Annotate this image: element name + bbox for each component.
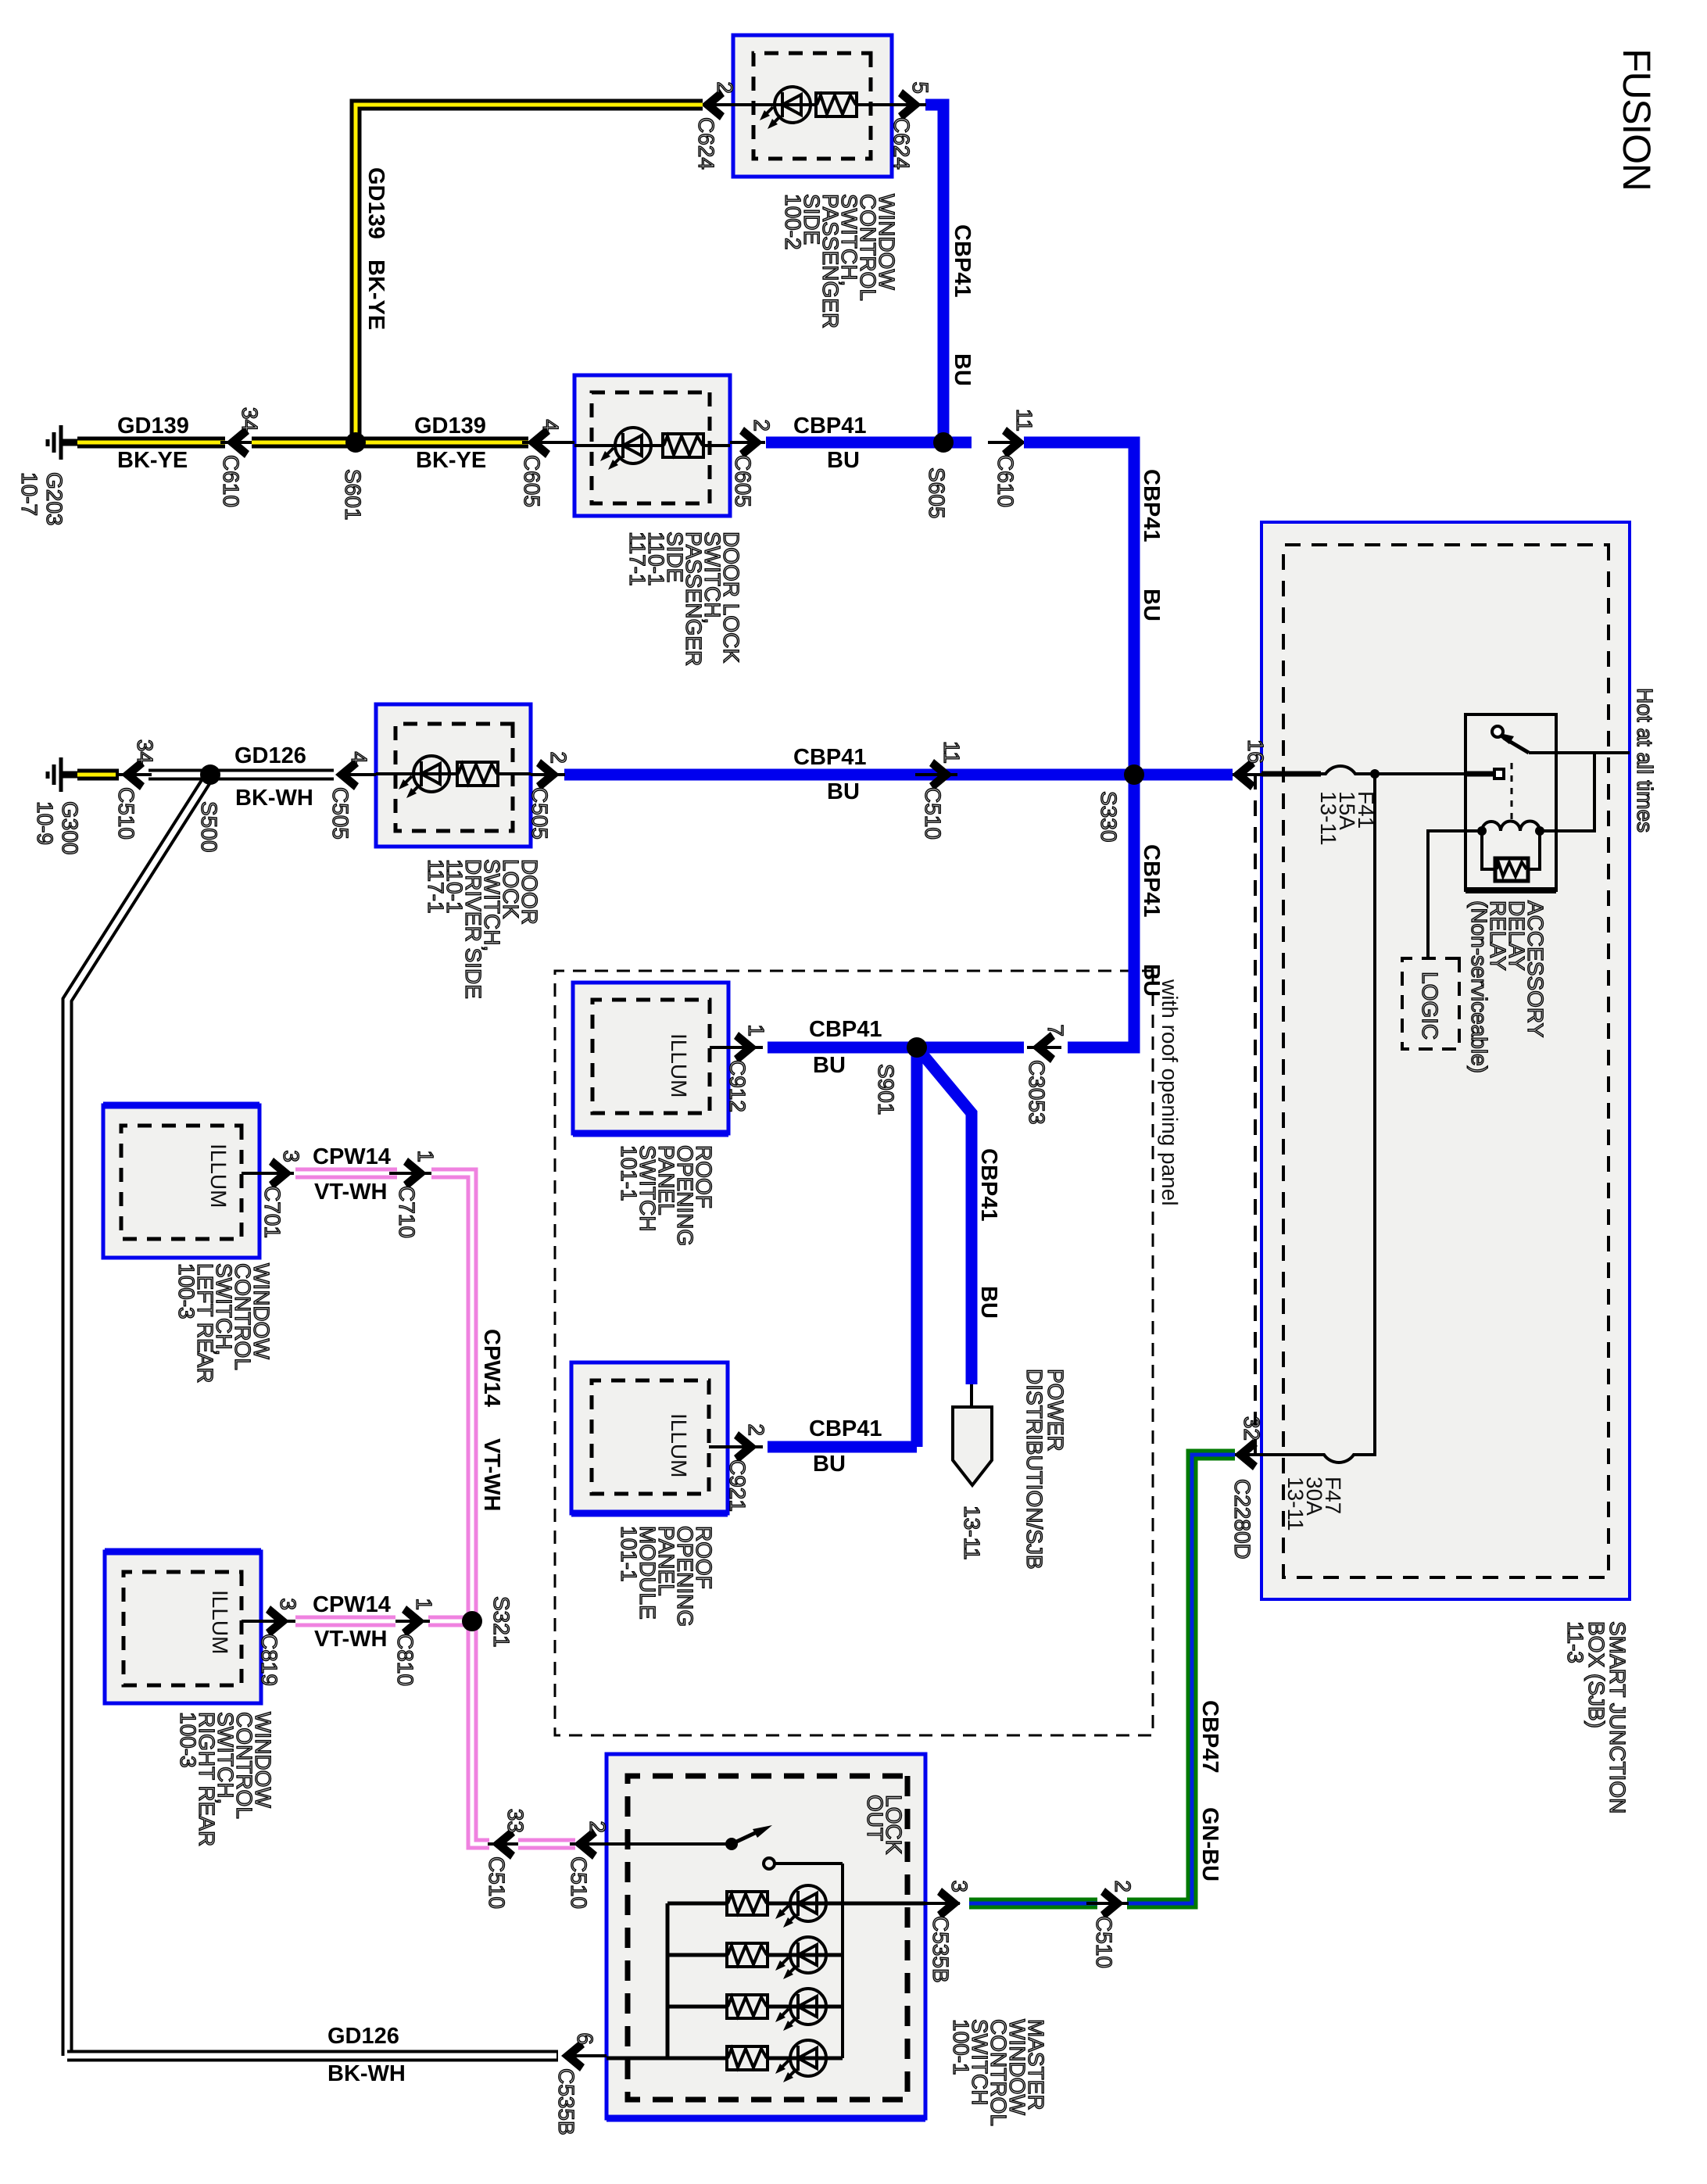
svg-text:10-7: 10-7	[17, 472, 41, 516]
svg-text:C701: C701	[260, 1186, 284, 1238]
junction S330 dot	[1124, 764, 1144, 785]
stub roof module illum pin	[709, 1445, 728, 1448]
svg-text:GD139: GD139	[363, 167, 388, 239]
connector C535B pin 6	[564, 2054, 607, 2057]
svg-text:VT-WH: VT-WH	[314, 1180, 387, 1205]
SJB pin 16 arrow	[1227, 773, 1261, 776]
power distribution SJB off-page symbol	[953, 1407, 992, 1485]
logic box	[1402, 958, 1459, 1049]
svg-text:S601: S601	[341, 469, 365, 520]
lamp supply bus	[841, 1864, 844, 2058]
svg-text:C535B: C535B	[929, 1916, 953, 1983]
label CBP41 BU above S330 going to SJB	[398, 198, 399, 199]
wire CBP41 S330 to driver door lock C505	[564, 769, 1134, 781]
svg-text:GN-BU: GN-BU	[1197, 1807, 1222, 1881]
svg-text:(Non-serviceable): (Non-serviceable)	[1467, 900, 1491, 1073]
svg-text:3: 3	[276, 1598, 300, 1610]
master box thick edge	[607, 2115, 925, 2122]
connector C510 pin 33	[492, 1828, 515, 1860]
wire GD139 BK-YE G203 to C610	[77, 437, 225, 449]
wire CBP41 BU passenger window switch to S605	[925, 105, 943, 442]
svg-text:LOGIC: LOGIC	[1418, 972, 1442, 1040]
svg-text:3: 3	[947, 1880, 972, 1892]
svg-text:CBP41: CBP41	[793, 745, 867, 770]
svg-text:CBP41: CBP41	[1139, 844, 1164, 918]
svg-text:C535B: C535B	[554, 2068, 578, 2136]
door lock switch driver side box	[376, 704, 531, 847]
svg-text:34: 34	[133, 739, 157, 764]
wire junction to fuse F47	[1358, 774, 1375, 1455]
wire fuse F41 to relay with junction	[1360, 772, 1465, 775]
connector C610 pin 34	[220, 441, 255, 444]
lockout switch wire	[607, 1842, 732, 1846]
svg-text:BK-WH: BK-WH	[235, 786, 313, 811]
wire BK-YE stub to ground G300	[77, 769, 119, 781]
wire CBP41 C3053 to S901	[917, 1042, 1024, 1054]
svg-text:GD126: GD126	[327, 2024, 399, 2049]
lamp in window control switch passenger	[760, 87, 811, 129]
wire CPW14 VT-WH C701 to C710	[295, 1168, 397, 1180]
relay dotted actuator link	[1511, 763, 1513, 823]
svg-text:ILLUM: ILLUM	[206, 1144, 231, 1208]
svg-text:101-1: 101-1	[617, 1145, 641, 1201]
svg-text:GD126: GD126	[234, 743, 306, 768]
wire coil to logic module	[1428, 831, 1482, 958]
svg-text:BU: BU	[976, 1286, 1001, 1319]
svg-text:100-1: 100-1	[949, 2019, 973, 2075]
window control switch left rear box	[103, 1105, 259, 1258]
wire CPW14 S321 down to right rear	[428, 1616, 472, 1627]
svg-text:C610: C610	[219, 455, 243, 507]
svg-text:C605: C605	[731, 455, 755, 507]
svg-text:C921: C921	[725, 1459, 750, 1512]
label GD126 BK-WH bottom	[327, 2024, 399, 2049]
svg-text:C3053: C3053	[1025, 1060, 1049, 1125]
wire CBP47 GN-BU SJB to master switch	[1127, 1455, 1235, 1903]
svg-text:BU: BU	[950, 353, 975, 386]
fuse F41	[1321, 766, 1360, 774]
relay moving contact arm	[1504, 738, 1529, 753]
svg-text:C510: C510	[114, 787, 138, 840]
wire CBP41 S901 diagonal to power distribution	[917, 1047, 972, 1384]
lamp column 2	[667, 1953, 843, 1957]
svg-text:2: 2	[713, 81, 737, 94]
svg-text:C505: C505	[328, 787, 352, 840]
wire GD126 BK-WH C505 to S500	[210, 769, 334, 781]
junction S321 dot	[462, 1611, 482, 1631]
lamp column 3	[667, 2005, 843, 2009]
svg-text:11: 11	[939, 741, 964, 764]
svg-text:101-1: 101-1	[617, 1526, 641, 1582]
wire CBP41 S901 to module column	[911, 1047, 923, 1447]
svg-text:C510: C510	[567, 1856, 591, 1909]
label CBP41 BU roof module	[809, 1416, 882, 1441]
svg-text:C624: C624	[694, 117, 718, 170]
connector C701 pin 3	[259, 1172, 294, 1175]
svg-text:6: 6	[573, 2032, 597, 2045]
svg-text:13-11: 13-11	[960, 1506, 984, 1560]
svg-text:CBP41: CBP41	[793, 414, 867, 439]
svg-text:100-3: 100-3	[174, 1263, 199, 1319]
svg-text:CBP41: CBP41	[1139, 469, 1164, 542]
connector C610 pin 11	[1002, 427, 1025, 458]
svg-text:2: 2	[546, 751, 571, 764]
relay input stub and terminal	[1465, 772, 1494, 777]
junction S901 dot	[907, 1037, 927, 1058]
connector C510 pin 2 green	[1100, 1888, 1124, 1919]
label CBP41 BU roof switch	[809, 1017, 882, 1042]
wire CBP41 S605 up to corner	[943, 437, 972, 449]
svg-text:C2280D: C2280D	[1230, 1479, 1254, 1559]
roof opening panel module box	[571, 1362, 728, 1513]
label GD126 BK-WH	[234, 743, 306, 768]
wire GD139 BK-YE S601 to C605	[356, 437, 528, 449]
junction S605 dot	[933, 432, 954, 453]
svg-text:C810: C810	[393, 1634, 417, 1686]
connector C810 pin 1	[402, 1606, 425, 1637]
resistor in window control switch passenger	[816, 93, 857, 116]
connector C819 pin 3	[261, 1620, 295, 1623]
lamp in door lock switch driver	[399, 756, 449, 798]
svg-text:FUSION: FUSION	[1615, 48, 1659, 191]
svg-text:BU: BU	[1139, 964, 1164, 997]
svg-text:CBP41: CBP41	[809, 1416, 882, 1441]
svg-text:ILLUM: ILLUM	[667, 1033, 691, 1097]
accessory delay relay box	[1465, 714, 1556, 890]
wire GD139 BK-YE C624 down and to S601	[356, 105, 703, 442]
svg-text:C510: C510	[1092, 1916, 1116, 1968]
svg-text:C819: C819	[257, 1634, 281, 1686]
svg-text:CPW14: CPW14	[313, 1144, 391, 1169]
label CPW14 VT-WH right rear	[313, 1592, 391, 1617]
roof module box thick edge	[571, 1510, 728, 1517]
label CBP41 BU	[793, 414, 867, 439]
svg-text:BU: BU	[827, 779, 860, 804]
svg-text:2: 2	[1111, 1880, 1135, 1892]
svg-text:C710: C710	[395, 1186, 419, 1238]
lamp column 1	[667, 1902, 925, 1906]
svg-text:10-9: 10-9	[33, 801, 57, 845]
connector C912 pin 1	[728, 1046, 763, 1049]
svg-text:117-1: 117-1	[424, 859, 448, 914]
svg-text:5: 5	[908, 81, 932, 94]
relay box thick edge	[1465, 887, 1556, 893]
lamp in door lock switch passenger	[600, 428, 651, 470]
svg-text:2: 2	[744, 1423, 768, 1436]
roof switch box thick edge	[573, 1130, 728, 1137]
svg-text:11: 11	[1012, 409, 1036, 431]
svg-text:VT-WH: VT-WH	[479, 1438, 504, 1511]
left rear box thick edge	[103, 1102, 259, 1109]
label GD139 BK-YE mid	[414, 414, 486, 439]
svg-text:4: 4	[539, 419, 563, 431]
connector C624 pin 2	[699, 103, 733, 106]
roof opening panel dashed region	[555, 971, 1153, 1735]
lockout switch pivot	[725, 1838, 738, 1850]
svg-text:G203: G203	[42, 472, 66, 526]
wire hot branch to coil	[1542, 753, 1594, 831]
window control switch right rear box	[105, 1552, 261, 1703]
connector C3053 pin 7	[1027, 1046, 1061, 1049]
svg-text:BU: BU	[827, 448, 860, 473]
svg-text:1: 1	[744, 1024, 768, 1037]
svg-text:BK-WH: BK-WH	[327, 2061, 406, 2086]
wire CPW14 VT-WH C810 to C819	[295, 1616, 395, 1627]
resistor in door lock switch passenger	[663, 434, 703, 457]
svg-text:S321: S321	[489, 1596, 514, 1647]
SJB inner dashed border	[1283, 545, 1609, 1577]
svg-text:2: 2	[750, 419, 774, 431]
wire CBP41 S901 to C912	[768, 1042, 917, 1054]
svg-text:S330: S330	[1097, 791, 1121, 842]
svg-text:OUT: OUT	[863, 1795, 887, 1841]
stub roof switch illum pin	[710, 1046, 728, 1049]
svg-text:100-2: 100-2	[781, 194, 805, 250]
svg-text:7: 7	[1043, 1024, 1068, 1037]
svg-text:VT-WH: VT-WH	[314, 1627, 387, 1652]
relay coil	[1477, 822, 1544, 836]
svg-text:BK-YE: BK-YE	[363, 260, 388, 330]
svg-text:1: 1	[413, 1150, 438, 1162]
stub to power distribution symbol	[970, 1384, 973, 1407]
wire CPW14 C710 to S321 rail	[431, 1173, 489, 1844]
svg-text:S500: S500	[197, 801, 221, 852]
wire GD126 BK-WH rail up to master switch	[67, 2050, 558, 2062]
resistor in door lock switch driver	[457, 762, 498, 786]
ground G300	[48, 757, 77, 792]
svg-text:BU: BU	[813, 1452, 846, 1477]
svg-text:C605: C605	[520, 455, 544, 507]
svg-text:ILLUM: ILLUM	[208, 1590, 232, 1654]
wire GD139 BK-YE C610 to S601	[252, 437, 356, 449]
svg-text:CPW14: CPW14	[479, 1329, 504, 1407]
svg-text:13-11: 13-11	[1316, 791, 1340, 846]
relay coil suppression resistor	[1482, 831, 1495, 869]
wire GD126 BK-WH S500 diagonal to bottom rail	[67, 775, 210, 2056]
wire CBP41 BU C605 to S605	[766, 437, 943, 449]
master window control switch box	[607, 1754, 925, 2118]
svg-text:GD139: GD139	[414, 414, 486, 439]
connector C510 pin 2 master	[574, 1828, 597, 1860]
SJB label	[1563, 1621, 1630, 1813]
lamp column 4	[607, 2057, 843, 2060]
smart junction box SJB	[1261, 522, 1630, 1599]
connector C624 pin 5	[892, 103, 926, 106]
fuse F47	[1319, 1455, 1358, 1463]
svg-text:ILLUM: ILLUM	[667, 1413, 691, 1477]
lockout fixed contact	[764, 1858, 775, 1869]
wire CBP41 S330 to C3053 corner	[1068, 775, 1134, 1047]
svg-text:DISTRIBUTION/SJB: DISTRIBUTION/SJB	[1022, 1369, 1047, 1570]
lamp return bus	[666, 1903, 670, 2058]
svg-text:100-3: 100-3	[176, 1712, 200, 1768]
svg-text:13-11: 13-11	[1283, 1477, 1308, 1531]
relay label	[1467, 900, 1548, 1073]
svg-text:11-3: 11-3	[1563, 1621, 1587, 1663]
svg-text:Hot at all times: Hot at all times	[1633, 688, 1657, 832]
lockout switch arm	[732, 1832, 757, 1844]
svg-text:with roof opening panel: with roof opening panel	[1158, 979, 1182, 1206]
svg-text:C912: C912	[725, 1060, 750, 1112]
ground G203	[48, 425, 77, 460]
svg-text:BU: BU	[1139, 589, 1164, 621]
svg-text:1: 1	[412, 1598, 436, 1610]
svg-text:CBP47: CBP47	[1197, 1700, 1222, 1774]
roof opening panel switch box	[573, 983, 728, 1133]
svg-text:GD139: GD139	[117, 414, 189, 439]
svg-text:S605: S605	[925, 467, 949, 518]
svg-text:CBP41: CBP41	[809, 1017, 882, 1042]
svg-text:S901: S901	[874, 1064, 898, 1115]
window control switch passenger side box	[733, 35, 892, 177]
svg-text:117-1: 117-1	[625, 532, 650, 586]
connector C510 pin 34 driver ground	[149, 769, 210, 781]
label CBP41 BU driver segment	[793, 745, 867, 770]
svg-text:4: 4	[347, 751, 371, 764]
svg-text:G300: G300	[58, 801, 82, 855]
wire through door lock switch passenger	[574, 444, 730, 447]
connector C510 pin 11	[929, 759, 953, 790]
wire CPW14 C510 to master switch	[518, 1838, 575, 1850]
SJB pin 32 arrow C2280D	[1229, 1453, 1261, 1456]
label CPW14 VT-WH left rear	[313, 1144, 391, 1169]
svg-text:CPW14: CPW14	[313, 1592, 391, 1617]
wire SJB pin16 internal to fuse F41	[1261, 772, 1321, 777]
connector C605 pin 2 above box	[730, 441, 765, 444]
svg-text:BK-YE: BK-YE	[416, 448, 486, 473]
svg-text:33: 33	[503, 1809, 528, 1833]
svg-text:CBP41: CBP41	[950, 224, 975, 298]
door lock switch passenger side box	[574, 375, 730, 516]
connector C605 pin 4	[522, 441, 574, 444]
connector C505 pin 2 driver	[531, 773, 565, 776]
svg-text:C624: C624	[889, 117, 914, 170]
stub right rear illum pin	[242, 1620, 261, 1623]
svg-text:16: 16	[1244, 739, 1268, 764]
svg-text:CBP41: CBP41	[976, 1148, 1001, 1222]
svg-text:32: 32	[1240, 1416, 1264, 1441]
connector C921 pin 2	[728, 1445, 763, 1448]
svg-text:C505: C505	[528, 787, 552, 840]
connector C535B pin 3	[925, 1902, 960, 1905]
wire fuse F47 to SJB pin 32	[1251, 1453, 1319, 1456]
right rear box thick edge	[105, 1548, 261, 1556]
stub left rear illum pin	[242, 1172, 259, 1175]
svg-text:34: 34	[238, 407, 262, 431]
svg-text:C510: C510	[485, 1856, 509, 1909]
svg-text:C610: C610	[993, 455, 1018, 507]
connector C710 pin 1	[403, 1158, 427, 1189]
wire hot feed from SJB top to relay arm	[1529, 751, 1630, 754]
wire through window control switch passenger	[733, 103, 892, 106]
junction S601 dot	[345, 432, 366, 453]
wire lockout contact to bus	[775, 1862, 843, 1865]
SJB connector face dashed line	[1254, 774, 1257, 1455]
svg-text:BU: BU	[813, 1053, 846, 1078]
connector C505 pin 4 driver	[341, 773, 376, 776]
relay arm pole terminal	[1492, 726, 1503, 737]
svg-text:BK-YE: BK-YE	[117, 448, 188, 473]
wire through door lock switch driver	[376, 772, 531, 775]
svg-text:C510: C510	[921, 787, 945, 840]
svg-text:2: 2	[585, 1821, 610, 1833]
junction S500 dot	[200, 764, 220, 785]
svg-text:3: 3	[279, 1150, 303, 1162]
wire CBP41 pin16 to S330	[1134, 769, 1233, 781]
